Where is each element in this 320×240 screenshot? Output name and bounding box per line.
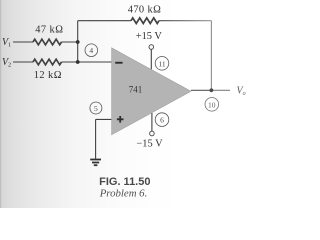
wire noninverting input xyxy=(96,118,112,120)
svg-text:+15 V: +15 V xyxy=(136,31,163,42)
svg-text:470 kΩ: 470 kΩ xyxy=(128,5,162,16)
svg-text:−15 V: −15 V xyxy=(136,139,163,150)
terminal -15V xyxy=(150,131,155,136)
junction output node dot xyxy=(210,88,214,92)
svg-text:FIG. 11.50: FIG. 11.50 xyxy=(99,176,150,188)
junction node A dot xyxy=(76,40,80,44)
pin circle 6 xyxy=(155,113,169,127)
wire R2 to node A xyxy=(62,61,78,63)
pin circle 4 xyxy=(85,44,98,57)
wire inverting input xyxy=(78,61,112,63)
junction node A2 dot xyxy=(76,60,80,64)
wire feedback top right xyxy=(159,20,211,22)
wire V1 input xyxy=(13,41,33,43)
svg-text:741: 741 xyxy=(129,85,143,95)
resistor R1 47 kOhm xyxy=(33,39,62,45)
svg-text:Problem 6.: Problem 6. xyxy=(99,188,148,200)
wire output right xyxy=(211,89,230,91)
svg-text:47 kΩ: 47 kΩ xyxy=(35,24,63,35)
svg-text:10: 10 xyxy=(208,100,216,109)
wire feedback vertical xyxy=(210,21,212,91)
svg-text:6: 6 xyxy=(160,116,164,125)
resistor RF 470 kOhm xyxy=(131,18,159,24)
wire to ground xyxy=(95,119,97,158)
svg-text:5: 5 xyxy=(94,104,98,113)
pin circle 10 xyxy=(205,98,219,112)
wire node A vertical xyxy=(77,21,79,62)
svg-text:11: 11 xyxy=(158,59,165,68)
wire feedback top left xyxy=(78,20,131,22)
wire V2 input xyxy=(13,61,33,63)
svg-text:4: 4 xyxy=(89,46,93,55)
pin circle 11 xyxy=(155,57,169,71)
wire R1 to node A xyxy=(62,41,78,43)
op-amp U1 741 xyxy=(112,48,191,135)
wire -15V supply xyxy=(151,113,153,131)
page background xyxy=(0,0,248,208)
pin circle 5 xyxy=(90,102,102,114)
ground xyxy=(90,160,101,166)
terminal +15V xyxy=(149,45,154,50)
resistor R2 12 kOhm xyxy=(33,59,62,65)
svg-text:12 kΩ: 12 kΩ xyxy=(34,70,62,81)
wire output left xyxy=(191,89,211,91)
wire +15V supply xyxy=(150,49,152,69)
